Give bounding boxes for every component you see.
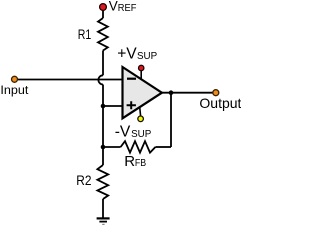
svg-text:R2: R2 [76,172,91,188]
wire: R1 bottom to hop [102,51,104,76]
+VSUP pin stub [140,68,142,80]
wire: input line [16,79,123,81]
wire: node A down to node B [102,106,104,147]
svg-text:R: R [124,153,135,170]
wire: node A to op-amp + input [103,105,123,107]
svg-text:V: V [109,0,118,14]
wire: VREF terminal to R1 top [102,9,104,18]
terminal Input [12,76,18,82]
resistor R1 [98,18,108,51]
svg-text:SUP: SUP [131,129,152,140]
svg-text:Input: Input [0,83,29,97]
svg-text:Output: Output [199,95,241,111]
wire: node B to R2 top [102,147,104,165]
-VSUP pin stub [139,107,142,116]
wire: RFB left to node B [103,146,121,148]
+VSUP terminal [139,65,144,70]
svg-text:FB: FB [135,158,147,169]
svg-text:SUP: SUP [137,51,158,62]
node A (junction to op-amp + input) [101,104,106,109]
ground [97,218,110,224]
-VSUP terminal [138,116,144,122]
node C (output junction) [169,90,174,95]
svg-text:+V: +V [117,45,137,62]
wire: feedback horizontal right of RFB [155,146,171,148]
terminal Output [213,90,219,96]
resistor R2 [97,165,108,199]
op-amp inverting input symbol [127,78,136,80]
wire hop over input line [98,75,103,84]
svg-text:-V: -V [115,124,131,141]
wire: feedback vertical [170,93,172,147]
svg-text:REF: REF [118,3,137,14]
op-amp U1 [123,67,162,118]
resistor RFB [121,141,156,152]
wire: op-amp output [162,92,214,94]
op-amp non-inverting input symbol [127,101,136,109]
terminal VREF [100,4,107,11]
wire: R2 bottom to ground [102,199,104,218]
svg-text:R1: R1 [78,26,92,42]
wire: hop to node A [102,85,104,107]
node B (junction to RFB) [101,145,106,150]
